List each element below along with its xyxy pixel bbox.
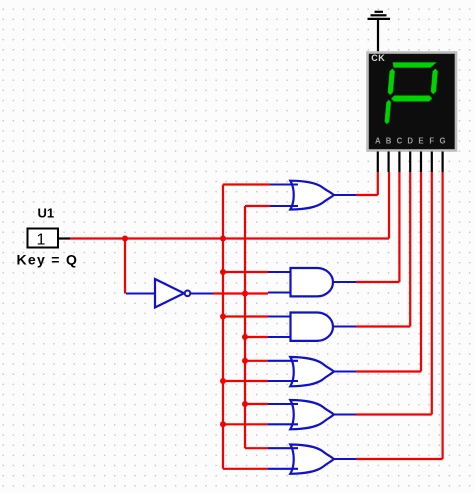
switch U1 body [28, 229, 71, 249]
svg-text:U1: U1 [38, 206, 55, 221]
wire line2 to OR U6 input A [245, 403, 268, 405]
wire U1 output horizontal to pin B [70, 237, 389, 239]
svg-text:E: E [418, 137, 423, 146]
wire bus line2 vertical (Qbar) [244, 206, 246, 448]
segment A [392, 63, 436, 68]
svg-text:CK: CK [371, 53, 385, 63]
wire U6 output to display pin F [333, 413, 356, 415]
OR gate U6 [290, 400, 334, 429]
wire ground to display CK [377, 20, 379, 52]
wire line1 to AND U4 input A [223, 315, 268, 317]
segment G [391, 96, 432, 102]
wire line1 to OR U2 input A [223, 183, 270, 185]
wire branch down to inverter [124, 239, 126, 294]
svg-text:F: F [429, 137, 434, 146]
segment digit showing P [385, 63, 439, 125]
AND gate U4 [291, 313, 333, 341]
wire U4 output to display pin D [333, 325, 356, 327]
svg-text:1: 1 [37, 232, 46, 249]
gate input stubs blue U7 [268, 448, 298, 469]
wire line1 to OR U5 input B [223, 380, 268, 382]
wire inverter output stub (blue) [190, 292, 213, 294]
wire U7 output to display pin G [333, 458, 356, 460]
junction line2 x inverter output [242, 291, 248, 297]
svg-text:B: B [386, 137, 392, 146]
junction on U1 line at inverter branch [122, 236, 128, 242]
OR gate U5 [290, 357, 334, 386]
junction line1 x U1 line [220, 236, 226, 242]
svg-text:C: C [397, 137, 403, 146]
wire pin B vertical [388, 172, 390, 239]
pin labels A-G [375, 137, 446, 146]
wire line1 to OR U6 input B [223, 423, 268, 425]
ground symbol [368, 12, 391, 19]
svg-text:D: D [407, 137, 413, 146]
seven segment display U8 [368, 53, 457, 173]
wire line2 to OR U2 input B [245, 205, 270, 207]
gate input stubs blue U4 [268, 317, 291, 338]
AND gate U3 [291, 268, 334, 296]
wire inverter input (blue) [126, 292, 155, 294]
wire bus line1 vertical (Q) [222, 185, 224, 469]
junction line1 to U6 input B [220, 421, 226, 427]
wire line2 bottom corner to OR U7 input A [245, 447, 268, 449]
wire inverter output to bus line2 and gate U3 input B [213, 292, 268, 294]
segment B [431, 69, 438, 94]
wire line1 bottom corner to OR U7 input B [223, 468, 268, 470]
junction line2 to U6 input A [242, 401, 248, 407]
gate input stubs blue U2 [270, 185, 298, 207]
junction line2 to U5 input A [242, 358, 248, 364]
svg-text:Key = Q: Key = Q [17, 252, 79, 268]
inverter (NOT gate) [155, 279, 190, 308]
segment F [388, 69, 395, 95]
segment E [385, 100, 391, 124]
OR gate U2 [290, 181, 334, 210]
junction line1 to U5 input B [220, 378, 226, 384]
wire line2 to AND U4 input B [245, 336, 268, 338]
wire line1 to AND U3 input A [223, 271, 268, 273]
OR gate U7 [290, 445, 334, 474]
gate input stubs blue U3 [268, 272, 291, 293]
gate input stubs blue U6 [268, 404, 298, 424]
wire line2 to OR U5 input A [245, 360, 268, 362]
junction line1 to U3 input A [220, 269, 226, 275]
gate input stubs blue U5 [268, 361, 298, 381]
display pins A-G stubs [378, 152, 443, 173]
wire U3 output to display pin C [333, 281, 356, 283]
wire U2 output to display pin A [333, 194, 356, 196]
junction line1 to U4 input A [220, 314, 226, 320]
wire U5 output to display pin E [333, 370, 356, 372]
junction line2 to U4 input B [242, 334, 248, 340]
svg-text:A: A [375, 137, 381, 146]
svg-text:G: G [440, 137, 446, 146]
